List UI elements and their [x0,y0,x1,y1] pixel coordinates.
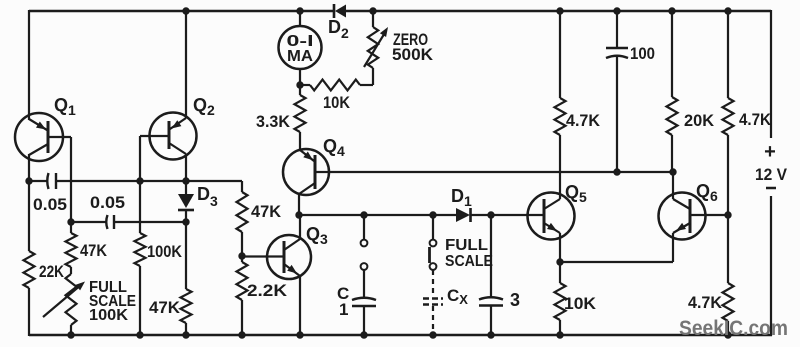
transistor Q4 base bar [314,155,317,189]
junction row2 at D3 column [182,218,189,225]
transistor Q1 collector diagonal [29,144,48,155]
wire D3 column to 47K [185,222,187,289]
transistor Q2 collector diagonal [169,143,186,154]
transistor Q6 emitter diagonal (NPN) [673,223,690,233]
svg-text:500K: 500K [392,45,434,64]
wire node to 4.7K lower [727,215,729,283]
potentiometer ZERO arrowhead [380,27,388,37]
wire coupling row1 right segment [56,180,242,182]
wire Q2 base left [140,135,169,137]
wire top rail to 4.7K upper [727,11,729,98]
transistor Q1 emitter arrowhead [36,122,46,130]
wire D1 to Q5 base [471,214,544,216]
junction bottom rail at C3 [487,331,494,338]
wire top supply rail left segment [29,10,334,12]
junction Q3 base node [238,252,245,259]
svg-text:0.05: 0.05 [33,195,67,214]
junction bottom rail at 10K [556,331,563,338]
svg-text:47K: 47K [149,298,181,317]
wire dashed Cx to bottom rail [432,306,434,334]
capacitor 3 top plate [479,297,503,299]
svg-text:47K: 47K [80,241,108,260]
junction Q6 base node [724,211,731,218]
switch FULL SCALE contact lower [430,263,437,270]
svg-text:4.7K: 4.7K [688,293,723,312]
transistor Q5 emitter diagonal (NPN) [544,223,560,233]
switch contact lower (C1 column) [361,263,368,270]
transistor Q3 emitter arrowhead [287,265,297,274]
junction zero pot top rail [369,7,376,14]
junction bottom rail at 2.2K [238,331,245,338]
capacitor 100 bottom plate [606,56,628,58]
transistor Q5 circle [528,193,575,240]
transistor Q4 emitter arrowhead [303,152,313,161]
junction bottom rail at C1 [360,331,367,338]
switch FULL SCALE contact upper [430,240,437,247]
capacitor Cx top plate (dashed) [423,297,443,299]
junction bottom rail at 47K/D3 [182,331,189,338]
wire Q5 emitter down [559,233,561,262]
resistor 4.7K (divider lower) zigzag [723,283,734,321]
potentiometer FULL SCALE 100K zigzag [66,274,77,325]
resistor 10K (emitter) zigzag [555,283,566,320]
wire 10K to meter node [300,84,310,86]
wire meter to top rail [299,11,301,26]
junction bottom rail at 100K [136,331,143,338]
diode D3 cathode bar [178,209,194,212]
wire node to 2.2K [241,256,243,262]
svg-text:0.05: 0.05 [90,193,125,212]
junction bias line at Q6 collector [669,168,676,175]
svg-text:2.2K: 2.2K [247,281,288,300]
wire bottom ground rail [29,334,772,337]
diode D2 cathode bar [333,4,336,18]
transistor Q1 emitter diagonal (PNP arrow into bar) [29,119,47,130]
svg-text:FULL: FULL [445,237,488,254]
junction 100 cap top rail [613,7,620,14]
junction meter bottom node [296,81,303,88]
transistor Q2 circle [150,113,197,160]
svg-text:47K: 47K [251,202,282,221]
wire Q2 collector to D3 [185,181,187,195]
wire D3 to row2 node [185,210,187,222]
transistor Q2 base bar [168,121,171,149]
svg-text:MA: MA [287,48,313,65]
wire right border upper (battery +) [770,10,772,138]
junction row1 at 100K column [136,177,143,184]
wire 20K to bias line [671,135,673,172]
transistor Q2 emitter arrowhead [172,120,182,128]
junction Q2 emitter top rail [182,7,189,14]
transistor Q3 base bar [283,241,286,273]
battery - sign [766,187,776,190]
wire coupling row1 left segment [29,180,47,182]
transistor Q6 base bar [689,199,692,233]
diode D3 triangle [178,194,194,208]
switch contact upper (C1 column) [361,240,368,247]
wire 47K to pot [70,267,72,274]
wire Q3 base [242,255,284,257]
wire 3.3K to Q4 [299,132,301,150]
junction line at C1 column [360,211,367,218]
resistor 47K (middle) zigzag [237,192,248,232]
wire pot corner to 10K [360,84,373,86]
junction meter top rail [296,7,303,14]
resistor 100K zigzag [135,233,146,266]
transistor Q4 circle [283,149,329,195]
wire meter node to 3.3K [299,85,301,95]
resistor 2.2K zigzag [237,262,248,300]
potentiometer FULL SCALE arrow shaft [43,284,82,317]
svg-text:4.7K: 4.7K [566,111,601,130]
wire 10K to bottom rail [559,320,561,336]
wire Q1 collector down to node [28,154,30,251]
wire 22K to bottom rail [28,288,30,336]
wire Q5 collector up through bias line [559,135,561,199]
wire C1 column mid [363,270,365,299]
transistor Q3 collector diagonal [284,239,300,250]
wire Q6 base right [690,214,728,216]
wire left border / Q1 emitter from top rail [28,10,30,120]
diode D1 triangle [456,208,470,222]
capacitor 0.05 (right) plate B [113,215,115,229]
wire C3 column upper [490,215,492,298]
svg-text:22K: 22K [39,262,65,281]
transistor Q4 emitter diagonal (PNP) [300,150,314,161]
wire top rail to 100 cap [616,11,618,48]
wire zero pot top [372,11,374,27]
resistor 22K zigzag [24,251,35,288]
svg-text:3: 3 [510,290,520,310]
svg-text:1: 1 [339,300,348,319]
svg-text:10K: 10K [323,93,351,112]
wire 47K to Q3 base node [241,232,243,256]
resistor 10K horizontal zigzag [310,80,360,91]
wire switch column upper [432,215,434,240]
wire 4.7K to Q6 base node [727,135,729,215]
transistor Q6 collector diagonal [673,199,690,209]
wire meter bottom [299,69,301,85]
resistor 20K zigzag [667,97,678,135]
wire 100 cap down to bias line [616,57,618,172]
transistor Q4 collector diagonal [299,183,315,194]
wire emitter node to 10K [559,262,561,283]
junction 20K top rail [668,7,675,14]
transistor Q3 emitter diagonal (NPN) [284,264,300,276]
capacitor 0.05 (right) plate A [106,215,107,229]
junction row1 at left border [25,177,32,184]
junction Q3/Q4 collectors [295,211,302,218]
svg-text:SCALE: SCALE [445,253,493,270]
wire Q3 emitter to bottom rail [299,276,301,336]
capacitor C1 bottom plate [352,305,376,308]
diode D2 triangle [335,5,346,18]
transistor Q5 collector diagonal [544,199,560,209]
wire 47K to bottom rail [185,323,187,336]
transistor Q3 circle [267,235,311,279]
junction bias line at 100 cap [613,168,620,175]
junction base column / coupling row2 [67,218,74,225]
potentiometer ZERO arrow shaft [364,31,386,67]
capacitor 0.05 (left) plate B [55,173,57,189]
junction row1 at D3 column [182,177,189,184]
wire Q2 base column down [139,136,141,233]
junction bottom rail at pot [67,331,74,338]
wire Q6 emitter down [672,233,674,262]
resistor 47K (left column) zigzag [66,233,77,267]
junction 4.7K bottom rail [724,331,731,338]
capacitor C1 top plate [352,298,376,300]
capacitor 3 bottom plate [479,304,503,307]
wire dashed to Cx [432,270,434,296]
wire right border lower (battery -) [770,196,772,336]
wire Q6 collector up [672,172,674,199]
wire coupling row2 left segment [71,221,107,223]
junction line at C3 column [487,211,494,218]
resistor 4.7K (Q5 collector) zigzag [555,98,566,135]
resistor 47K (D3 column) zigzag [181,289,192,323]
wire top rail to 20K [671,11,673,97]
wire top supply rail right segment [346,10,771,12]
switch FULL SCALE blade [428,247,431,263]
wire to 47K [70,222,72,233]
wire Q4 collector down [298,194,300,215]
wire C1 column upper [363,215,365,240]
wire 4.7K lower to bottom rail [727,321,729,336]
wire Q2 emitter from top rail [185,11,187,118]
svg-text:4.7K: 4.7K [739,110,772,129]
svg-text:10K: 10K [564,294,597,313]
wire 2.2K to bottom rail [241,300,243,336]
junction bottom rail at Cx [429,331,436,338]
diode D1 cathode bar [469,208,472,222]
transistor Q5 emitter arrowhead [547,223,557,231]
wire Q1 base column down [70,137,72,222]
wire Q4 base to right [315,171,329,173]
transistor Q1 base bar [47,121,50,153]
potentiometer ZERO 500K zigzag [368,27,378,68]
wire 100K to bottom rail [139,266,141,336]
junction right divider top rail [724,7,731,14]
transistor Q2 emitter diagonal (PNP) [170,118,186,129]
svg-text:100K: 100K [89,307,128,324]
wire Q3 collector up [299,215,301,239]
transistor Q6 circle [659,193,706,240]
svg-text:100K: 100K [147,242,183,261]
capacitor Cx bottom plate (dashed) [423,303,443,305]
wire top rail to 4.7K [559,11,561,98]
svg-text:100: 100 [630,44,655,63]
transistor Q5 base bar [543,199,546,233]
junction Q5 emitter node [556,258,563,265]
junction bottom rail at Q3 emitter [296,331,303,338]
wire C1 to bottom rail [363,306,365,336]
capacitor 100 top plate [606,47,628,50]
transistor Q1 circle [15,113,63,161]
resistor 4.7K (divider upper) zigzag [723,98,734,135]
svg-text:+: + [764,141,776,163]
wire zero pot bottom [372,68,374,85]
resistor 3.3K zigzag [295,95,306,132]
wire row1 corner down to 47K [241,181,243,192]
wire Q4 base bias line [329,171,673,173]
junction line at switch column [429,211,436,218]
wire collector node to D1 [299,214,457,216]
potentiometer FULL SCALE arrowhead [75,282,85,291]
svg-text:SeekIC.com: SeekIC.com [679,317,788,340]
svg-text:3.3K: 3.3K [256,112,291,131]
transistor Q6 emitter arrowhead [676,223,686,231]
meter M 0-1MA circle [279,26,322,69]
svg-text:12 V: 12 V [755,165,788,184]
wire pot to bottom rail [70,325,72,336]
junction 4.7K top rail [556,7,563,14]
wire emitter tie line [560,261,673,263]
wire Q2 collector down [185,154,187,181]
wire C3 to bottom rail [490,306,492,337]
wire Q1 base to vertical [48,136,71,138]
capacitor 0.05 (left) plate A [47,173,48,189]
svg-text:20K: 20K [684,111,715,130]
wire coupling row2 right segment [114,221,186,223]
